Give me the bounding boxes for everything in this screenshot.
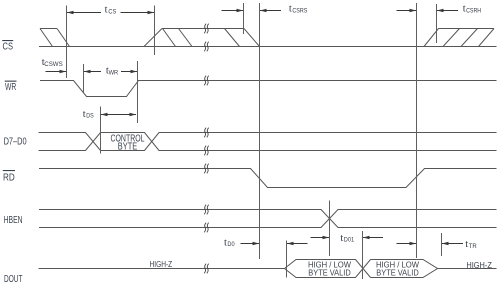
- label tCSWS dimension arrow: [46, 70, 67, 74]
- svg-text:D7–D0: D7–D0: [4, 137, 27, 148]
- svg-text:CSWS: CSWS: [44, 61, 62, 68]
- wire HBEN bus top with transition: [39, 210, 497, 228]
- svg-text:HIGH-Z: HIGH-Z: [150, 259, 173, 269]
- node HIGH/LOW BYTE VALID label 1: [308, 260, 351, 277]
- label tD0 dimension arrows: [241, 242, 308, 246]
- label tCS: [105, 5, 117, 16]
- node HIGH/LOW BYTE VALID label 2: [376, 260, 419, 277]
- svg-text:CS: CS: [108, 9, 116, 16]
- label tD01 dimension arrows: [311, 236, 384, 240]
- label tTR: [465, 239, 477, 250]
- svg-text:BYTE VALID: BYTE VALID: [376, 268, 419, 277]
- svg-text:CSRS: CSRS: [292, 8, 307, 15]
- wire DOUT high-z right: [438, 268, 497, 270]
- node break marks on all signal lines: [204, 24, 209, 274]
- label tWR dimension arrows: [84, 70, 137, 74]
- label tCSRH dimension arrows: [397, 9, 459, 13]
- svg-text:HIGH-Z: HIGH-Z: [466, 260, 492, 270]
- wire DOUT high-z left: [39, 268, 285, 270]
- label tDS dimension arrows: [101, 113, 136, 117]
- wire D7-D0 bus top with transitions: [39, 133, 497, 151]
- wire RD waveform: [39, 169, 497, 188]
- label tD01: [340, 233, 354, 244]
- label tCSWS: [42, 57, 63, 68]
- node CONTROL BYTE value label: [111, 134, 145, 153]
- svg-text:D0: D0: [227, 241, 235, 248]
- svg-text:TR: TR: [469, 243, 477, 250]
- wire HBEN bus bottom with transition: [39, 210, 497, 228]
- svg-text:WR: WR: [109, 70, 119, 77]
- label tCS dimension arrows: [67, 11, 154, 15]
- label tDS: [83, 109, 94, 120]
- wire vertical reference line at CS fall: [67, 3, 442, 279]
- label tCSRS: [289, 4, 308, 15]
- svg-text:t: t: [83, 109, 86, 120]
- svg-text:t: t: [105, 5, 108, 16]
- wire D7-D0 bus bottom with transitions: [39, 133, 497, 151]
- node DOUT valid hexagon 1: [285, 260, 371, 278]
- svg-text:RD: RD: [3, 173, 15, 184]
- label tTR dimension arrows: [397, 242, 464, 246]
- wire WR waveform: [40, 81, 497, 97]
- svg-text:WR: WR: [5, 82, 16, 93]
- node DOUT valid hexagon 2: [371, 260, 438, 278]
- label tD0: [224, 237, 235, 248]
- svg-text:D01: D01: [344, 237, 355, 244]
- label tWR: [106, 66, 119, 77]
- svg-text:CSRH: CSRH: [466, 7, 481, 14]
- node CS label: [2, 40, 13, 53]
- wire CS low line: [39, 46, 497, 48]
- label tCSRS dimension arrows: [222, 9, 282, 13]
- svg-text:DOUT: DOUT: [4, 274, 23, 285]
- svg-text:HBEN: HBEN: [4, 215, 23, 226]
- svg-text:BYTE: BYTE: [118, 142, 138, 153]
- node CS right high region with hatching: [424, 29, 494, 47]
- label tCSRH: [463, 3, 482, 14]
- node RD label: [3, 170, 15, 184]
- node WR label: [5, 81, 17, 93]
- svg-text:DS: DS: [86, 113, 93, 120]
- node CS middle high pulse with hatching: [144, 29, 260, 47]
- svg-text:CS: CS: [3, 42, 14, 53]
- node CS start dont-care parallelogram: [40, 29, 70, 47]
- svg-text:BYTE VALID: BYTE VALID: [308, 268, 351, 277]
